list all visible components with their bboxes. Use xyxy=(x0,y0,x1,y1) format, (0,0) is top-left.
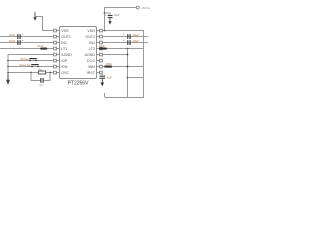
svg-text:PT2256V: PT2256V xyxy=(68,81,90,87)
node junction INH mid rail xyxy=(127,66,129,68)
svg-text:1uF: 1uF xyxy=(107,76,112,80)
wire LT1 xyxy=(0,48,54,50)
wire OUT2 output xyxy=(102,36,148,38)
svg-text:OUT1: OUT1 xyxy=(61,35,71,39)
svg-text:LT2: LT2 xyxy=(89,47,95,51)
svg-text:Ro: Ro xyxy=(39,67,43,71)
wire mid rail to right rail xyxy=(128,77,144,79)
node junction OSC-rail xyxy=(7,72,9,74)
capacitor C2 on IN1 wire xyxy=(17,38,24,45)
svg-text:+: + xyxy=(22,38,24,42)
svg-text:10uF: 10uF xyxy=(9,39,16,43)
right pin stubs xyxy=(97,31,100,73)
node junction OSC right xyxy=(49,72,51,74)
wire VDD vertical to top rail xyxy=(105,8,137,31)
svg-text:10uF: 10uF xyxy=(37,44,44,48)
left pin stubs xyxy=(57,31,60,73)
svg-text:VDD: VDD xyxy=(87,29,95,33)
svg-text:+: + xyxy=(22,32,24,36)
svg-text:UP Key: UP Key xyxy=(20,57,29,61)
node junction VDD xyxy=(104,30,106,32)
svg-text:VSS: VSS xyxy=(61,29,69,33)
svg-text:Co: Co xyxy=(40,83,44,87)
svg-text:100K: 100K xyxy=(106,62,113,66)
node junction cap branch xyxy=(104,12,106,14)
capacitor C7 on IN2 wire xyxy=(123,38,131,45)
wire IN2 input xyxy=(102,42,148,44)
wire IN1 input xyxy=(0,42,54,44)
resistor R2 on INH wire xyxy=(104,66,112,68)
wire OSC xyxy=(8,72,54,74)
pushbutton SW2 Down Key xyxy=(31,65,39,68)
capacitor C4 on OSC branch xyxy=(40,78,44,83)
svg-text:10uF: 10uF xyxy=(99,44,106,48)
op-amp U1 PT2256V IC body xyxy=(60,27,97,79)
capacitor C5 decoupling xyxy=(105,14,113,18)
svg-text:IN1: IN1 xyxy=(61,41,67,45)
ground arrow under C5 xyxy=(108,18,111,24)
wire to decoupling cap xyxy=(105,13,111,15)
svg-text:10uF: 10uF xyxy=(133,39,140,43)
node junction AGND mid rail xyxy=(127,54,129,56)
svg-text:DCO: DCO xyxy=(87,59,95,63)
svg-text:AGND: AGND xyxy=(85,53,96,57)
wire OUT1 input xyxy=(0,36,54,38)
wire mid rail vertical xyxy=(127,49,129,98)
svg-text:+5V in: +5V in xyxy=(141,6,150,10)
capacitor C6 on OUT2 wire xyxy=(123,32,131,39)
wire AGND right to mid rail xyxy=(102,54,127,56)
svg-text:OUT2: OUT2 xyxy=(85,35,95,39)
wire VSS to ground arrow xyxy=(35,17,54,31)
svg-text:Down Key: Down Key xyxy=(20,63,33,67)
svg-text:/INH: /INH xyxy=(88,65,96,69)
svg-text:IN2: IN2 xyxy=(89,41,95,45)
svg-text:10uF: 10uF xyxy=(114,13,120,17)
ground arrow at VSS wire xyxy=(33,12,36,21)
capacitor C1 on OUT1 wire xyxy=(17,32,24,39)
wire /DN xyxy=(8,66,54,68)
capacitor C8 on LT2 wire xyxy=(99,48,107,50)
svg-text:LT1: LT1 xyxy=(61,47,67,51)
ground arrow under C9 xyxy=(100,79,104,86)
wire /UP xyxy=(8,60,54,62)
pushbutton SW1 UP Key xyxy=(29,59,37,62)
node junction OSC left xyxy=(30,72,32,74)
left pin terminal squares xyxy=(54,29,57,74)
terminal +5V in xyxy=(136,6,139,9)
wire LT2 to right rail xyxy=(102,48,143,50)
capacitor C3 on LT1 wire xyxy=(40,48,47,50)
svg-text:+: + xyxy=(123,38,125,42)
wire AGND left xyxy=(8,54,54,56)
ground rail left xyxy=(7,55,9,80)
svg-text:OSC: OSC xyxy=(61,71,69,75)
wire /RST to cap xyxy=(101,73,103,76)
svg-text:+: + xyxy=(123,32,125,36)
wire OSC lower branch xyxy=(31,73,50,81)
svg-text:10uF: 10uF xyxy=(9,33,16,37)
svg-text:AGND: AGND xyxy=(61,53,72,57)
wire VDD row to right rail xyxy=(102,31,143,98)
svg-text:/UP: /UP xyxy=(61,59,68,63)
right pin terminal squares xyxy=(100,29,103,74)
ground arrow left rail xyxy=(6,74,10,85)
wire /INH to right rail xyxy=(102,66,143,68)
resistor R1 on OSC wire xyxy=(38,71,45,74)
node junction DN-rail xyxy=(7,66,9,68)
node junction LT2 mid rail xyxy=(127,48,129,50)
node junction UP-rail xyxy=(7,60,9,62)
capacitor C9 on RST xyxy=(100,76,106,79)
svg-text:/DN: /DN xyxy=(61,65,68,69)
node junction mid rail lower xyxy=(127,77,129,79)
svg-text:/RST: /RST xyxy=(87,71,96,75)
svg-text:10uF: 10uF xyxy=(133,33,140,37)
